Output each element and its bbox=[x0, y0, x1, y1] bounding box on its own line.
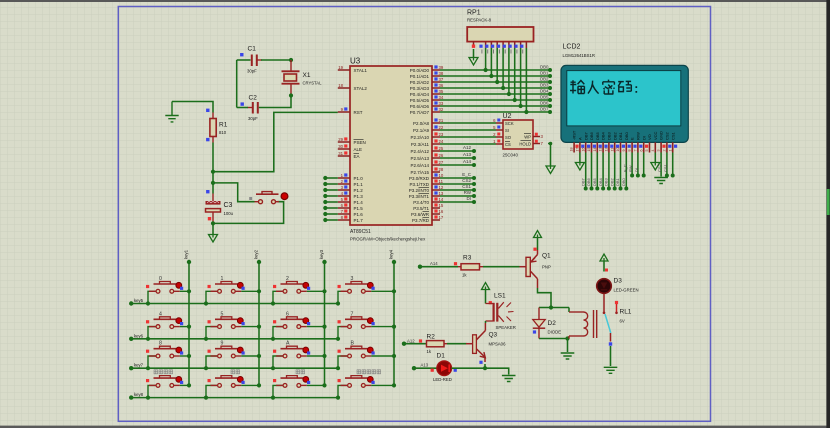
node DB0 end bbox=[548, 68, 552, 72]
svg-text:DB7: DB7 bbox=[583, 131, 588, 140]
svg-text:key3: key3 bbox=[319, 249, 324, 259]
wire A12 to R2 bbox=[404, 343, 427, 345]
node key3 column top bbox=[322, 260, 326, 264]
U2 pin 6 SCK bbox=[496, 122, 503, 124]
U3 pin 11 P3.1/TXD bbox=[432, 183, 440, 185]
svg-text:P2.0/A8: P2.0/A8 bbox=[413, 121, 430, 126]
svg-text:3: 3 bbox=[657, 150, 661, 152]
node RP1-DB0 junction bbox=[484, 68, 488, 72]
node E_C end bbox=[472, 176, 476, 180]
wire key6 row bus bbox=[131, 338, 338, 340]
svg-text:VO: VO bbox=[647, 134, 652, 140]
svg-text:LS1: LS1 bbox=[494, 293, 506, 300]
U3 pin 35 P0.4/AD4 bbox=[432, 93, 440, 95]
svg-text:A13: A13 bbox=[421, 363, 429, 368]
U3 pin 25 P2.4/A12 bbox=[432, 150, 440, 152]
U3 pin 9 RST bbox=[338, 111, 350, 113]
svg-text:DB4: DB4 bbox=[601, 131, 606, 140]
wire P2.2 to U2 bbox=[440, 136, 496, 138]
node C3 bottom junction bbox=[211, 221, 215, 225]
svg-text:DI: DI bbox=[634, 168, 639, 172]
U3 pin 34 P0.5/AD5 bbox=[432, 99, 440, 101]
node LCD DB5 end bbox=[595, 187, 599, 191]
node LCD DB7 end bbox=[584, 187, 588, 191]
svg-text:DB4: DB4 bbox=[598, 177, 603, 186]
svg-text:B: B bbox=[351, 341, 355, 347]
svg-text:P0.4/AD4: P0.4/AD4 bbox=[410, 92, 430, 97]
wire U2 HOLD to ground bbox=[548, 144, 551, 167]
svg-text:5: 5 bbox=[645, 150, 649, 152]
svg-text:CS2: CS2 bbox=[462, 178, 471, 183]
svg-text:13: 13 bbox=[599, 148, 603, 152]
wire Q3 emitter to A13 rail bbox=[484, 364, 486, 368]
svg-text:P2.6/A14: P2.6/A14 bbox=[410, 163, 429, 168]
node LCD DB1 end bbox=[619, 187, 623, 191]
svg-text:P1.0: P1.0 bbox=[354, 176, 364, 181]
U3 pin 16 P3.6/WR bbox=[432, 213, 440, 215]
svg-text:18: 18 bbox=[338, 83, 343, 88]
node P1.1 end bbox=[323, 182, 327, 186]
svg-text:RW: RW bbox=[464, 190, 472, 195]
node P1.4 end bbox=[323, 200, 327, 204]
U3 pin 31 EA bbox=[338, 155, 350, 157]
U2 pin 5 SI bbox=[496, 129, 503, 131]
svg-text:DB6: DB6 bbox=[586, 177, 591, 186]
node RP1-DB7 junction bbox=[524, 110, 528, 114]
node A13 wire start bbox=[412, 366, 416, 370]
svg-text:RL1: RL1 bbox=[620, 309, 632, 316]
svg-text:8: 8 bbox=[159, 341, 162, 347]
wire R2 to Q3 base bbox=[447, 343, 467, 345]
wire net A12 bbox=[440, 150, 474, 152]
wire key3 column bbox=[324, 262, 326, 385]
node LCD DB6 end bbox=[590, 187, 594, 191]
wire R3 to Q1 base bbox=[483, 266, 520, 268]
node LCD DB3 end bbox=[607, 187, 611, 191]
U3 pin 10 P3.0/RXD bbox=[432, 177, 440, 179]
svg-text:A: A bbox=[578, 137, 583, 140]
svg-text:4: 4 bbox=[651, 150, 655, 152]
RP1 pin 2 wire to DB0 bbox=[485, 42, 487, 48]
svg-text:E: E bbox=[630, 137, 635, 140]
svg-text:1: 1 bbox=[668, 150, 672, 152]
svg-text:C2: C2 bbox=[249, 95, 258, 102]
U3 pin 39 P0.0/AD0 bbox=[432, 69, 440, 71]
svg-text:19: 19 bbox=[338, 65, 343, 70]
node A14 wire start bbox=[418, 265, 422, 269]
node key4 column top bbox=[392, 260, 396, 264]
push-button key r2c1 "4" bbox=[146, 311, 191, 341]
node DB2 end bbox=[548, 80, 552, 84]
push-button key r4c1 "SET" bbox=[146, 376, 191, 400]
push-button key r2c4 "7" bbox=[336, 311, 396, 341]
push-button key r1c1 "0" bbox=[146, 276, 191, 306]
node DB4 end bbox=[548, 92, 552, 96]
svg-text:A13: A13 bbox=[463, 152, 472, 157]
node CS1 end bbox=[472, 188, 476, 192]
wire RST net (junction to RST pin) bbox=[213, 112, 338, 171]
node crystal top junction bbox=[289, 58, 293, 62]
node LCD CS1 end bbox=[671, 174, 675, 178]
node A13 end bbox=[472, 156, 476, 160]
wire junction to relay coil bbox=[551, 307, 569, 309]
ground (LCD VCC) bbox=[651, 163, 660, 171]
svg-text:10: 10 bbox=[616, 148, 620, 152]
svg-text:DB5: DB5 bbox=[595, 131, 600, 140]
svg-text:C3: C3 bbox=[224, 202, 233, 209]
wire A14 to R3 bbox=[420, 266, 458, 268]
svg-text:RW: RW bbox=[628, 165, 633, 172]
svg-text:P1.2: P1.2 bbox=[354, 188, 364, 193]
node RP1-DB5 junction bbox=[513, 98, 517, 102]
wire junction down to C3 bbox=[212, 172, 214, 194]
node RW end bbox=[472, 194, 476, 198]
svg-text:key8: key8 bbox=[134, 392, 144, 397]
wire P0.6 / DB6 net bbox=[440, 105, 550, 107]
wire P1.7 stub bbox=[325, 219, 338, 221]
node coil/diode bottom junction bbox=[565, 336, 569, 340]
wire C1 right to crystal node bbox=[261, 59, 291, 61]
svg-text:DI: DI bbox=[467, 196, 472, 201]
svg-text:Q1: Q1 bbox=[542, 253, 551, 260]
node R1 bottom junction bbox=[211, 170, 215, 174]
power terminal (D3) bbox=[600, 254, 608, 261]
wire to relay ground bbox=[567, 339, 569, 353]
ground (LCD GND) bbox=[654, 178, 668, 184]
U3 pin 5 P1.4 bbox=[338, 201, 350, 203]
U3 pin 24 P2.3/A11 bbox=[432, 143, 440, 145]
power terminal (LS1) bbox=[482, 283, 490, 290]
wire LCD pin17 to ground bbox=[579, 153, 581, 163]
node LCD DI end bbox=[642, 174, 646, 178]
resistor R1 bbox=[210, 113, 216, 143]
node Q3 emitter junction bbox=[483, 366, 487, 370]
node LCD DB0 end bbox=[624, 187, 628, 191]
svg-text:DB1: DB1 bbox=[615, 177, 620, 186]
svg-text:D3: D3 bbox=[614, 278, 623, 285]
svg-text:P0.7/AD7: P0.7/AD7 bbox=[410, 110, 430, 115]
svg-text:R1: R1 bbox=[219, 122, 228, 129]
svg-text:14: 14 bbox=[593, 148, 597, 152]
svg-text:P2.1/A9: P2.1/A9 bbox=[413, 128, 430, 133]
svg-text:4: 4 bbox=[159, 311, 162, 317]
ground (RP1 pin1) bbox=[469, 58, 478, 66]
wire LCD RW drop bbox=[637, 153, 639, 176]
svg-text:CS2: CS2 bbox=[657, 163, 662, 172]
svg-text:XTAL2: XTAL2 bbox=[354, 86, 368, 91]
push-button key r3c1 "8" bbox=[146, 341, 191, 371]
svg-text:P1.5: P1.5 bbox=[354, 206, 364, 211]
svg-text:A14: A14 bbox=[430, 261, 438, 266]
node RP1-DB4 junction bbox=[507, 92, 511, 96]
svg-text:DB1: DB1 bbox=[540, 70, 549, 75]
wire LCD VCC to ground arrow bbox=[654, 153, 656, 163]
svg-text:30pF: 30pF bbox=[247, 69, 257, 74]
svg-text:DB1: DB1 bbox=[618, 131, 623, 140]
wire P0.2 / DB2 net bbox=[440, 81, 550, 83]
svg-text:R/W: R/W bbox=[636, 132, 641, 140]
svg-text:D1: D1 bbox=[437, 353, 446, 360]
svg-text:DB7: DB7 bbox=[540, 106, 549, 111]
node key1 column top bbox=[187, 260, 191, 264]
LCD2 display shell bbox=[561, 65, 688, 142]
node DB7 end bbox=[548, 110, 552, 114]
node LCD DB2 end bbox=[613, 187, 617, 191]
node P1.0 end bbox=[323, 176, 327, 180]
U3 pin 8 P1.7 bbox=[338, 219, 350, 221]
svg-text:DB3: DB3 bbox=[604, 177, 609, 186]
svg-text:3: 3 bbox=[351, 276, 354, 282]
U3 pin 26 P2.5/A13 bbox=[432, 157, 440, 159]
RP1 pin 7 wire to DB5 bbox=[514, 42, 516, 48]
wire D2 bottom rail bbox=[539, 338, 569, 340]
wire key1 column bbox=[188, 262, 190, 385]
power terminal (Q1 emitter) bbox=[534, 231, 542, 238]
svg-text:SI: SI bbox=[505, 128, 509, 133]
node LCD CS2 end bbox=[665, 174, 669, 178]
relay RL1 coil bbox=[569, 310, 597, 339]
svg-text:key4: key4 bbox=[389, 249, 394, 259]
U3 pin 38 P0.1/AD1 bbox=[432, 75, 440, 77]
ground (relay coil) bbox=[561, 353, 575, 359]
svg-text:GND: GND bbox=[659, 131, 664, 140]
wire LCD E_C drop bbox=[631, 153, 633, 176]
svg-text:CS: CS bbox=[505, 142, 511, 147]
svg-text:PSEN: PSEN bbox=[354, 140, 366, 145]
U3 pin 21 P2.0/A8 bbox=[432, 122, 440, 124]
ground (LCD pin17) bbox=[575, 163, 584, 171]
svg-text:LED-RED: LED-RED bbox=[433, 377, 452, 382]
RP1 pin 3 wire to DB1 bbox=[490, 42, 492, 48]
svg-text:R2: R2 bbox=[427, 334, 436, 341]
node A12 wire start bbox=[402, 342, 406, 346]
svg-text:Q3: Q3 bbox=[489, 332, 498, 339]
svg-text:2: 2 bbox=[663, 150, 667, 152]
LCD2 screen text 输入密码: (hand-drawn strokes) bbox=[570, 80, 636, 94]
svg-text:P3.5/T1: P3.5/T1 bbox=[413, 206, 429, 211]
svg-text:P3.4/T0: P3.4/T0 bbox=[413, 200, 429, 205]
wire relay common to ground bbox=[610, 346, 612, 366]
wire P1.3 stub bbox=[325, 195, 338, 197]
wire P1.4 stub bbox=[325, 201, 338, 203]
svg-text:P3.6/WR: P3.6/WR bbox=[411, 212, 430, 217]
svg-text:HOLD: HOLD bbox=[519, 141, 531, 146]
wire LCD DB0 drop bbox=[625, 153, 627, 189]
U2 pin 3 WP bbox=[533, 136, 540, 138]
svg-text:U2: U2 bbox=[503, 113, 512, 120]
node P1.5 end bbox=[323, 206, 327, 210]
resistor R2 bbox=[427, 341, 448, 347]
wire LCD DB3 drop bbox=[608, 153, 610, 189]
svg-text:P3.1/TXD: P3.1/TXD bbox=[409, 182, 429, 187]
push-button key r4c4 "CANCEL" bbox=[336, 376, 396, 400]
svg-text:P2.7/A15: P2.7/A15 bbox=[410, 170, 429, 175]
wire P1.5 stub bbox=[325, 207, 338, 209]
ground (left of R1) bbox=[165, 102, 178, 122]
svg-text:key6: key6 bbox=[134, 333, 144, 338]
svg-text:CRYSTAL: CRYSTAL bbox=[303, 80, 323, 85]
svg-text:P1.7: P1.7 bbox=[354, 218, 364, 223]
svg-text:MPSA06: MPSA06 bbox=[489, 342, 507, 347]
svg-text:A12: A12 bbox=[407, 338, 415, 343]
svg-text:100u: 100u bbox=[224, 211, 234, 216]
crystal X1 bbox=[282, 60, 300, 96]
svg-text:DI: DI bbox=[641, 136, 646, 140]
wire P0.7 / DB7 net bbox=[440, 111, 550, 113]
svg-text:P1.1: P1.1 bbox=[354, 182, 364, 187]
U2 pin 2 SO bbox=[496, 136, 503, 138]
push-button key r4c3 "OK" bbox=[271, 376, 327, 400]
svg-text:17: 17 bbox=[576, 148, 580, 152]
wire LS1 bottom to Q3 collector bbox=[485, 321, 487, 323]
node LCD E_C end bbox=[630, 174, 634, 178]
svg-text:CS1: CS1 bbox=[670, 131, 675, 140]
svg-text:P2.3/A11: P2.3/A11 bbox=[411, 142, 430, 147]
svg-text:P2.4/A12: P2.4/A12 bbox=[410, 149, 429, 154]
RP1 pin 1 (common) bbox=[473, 42, 475, 47]
wire C3 to ground bbox=[212, 223, 214, 234]
wire P1.1 stub bbox=[325, 183, 338, 185]
node DB5 end bbox=[548, 98, 552, 102]
node LCD DB4 end bbox=[601, 187, 605, 191]
svg-text:SPEAKER: SPEAKER bbox=[496, 325, 516, 330]
capacitor C1 bbox=[252, 55, 262, 67]
svg-text:31: 31 bbox=[338, 151, 343, 156]
svg-text:12: 12 bbox=[605, 148, 609, 152]
svg-text:P1.6: P1.6 bbox=[354, 212, 364, 217]
wire P0.5 / DB5 net bbox=[440, 99, 550, 101]
wire LCD DB2 drop bbox=[614, 153, 616, 189]
svg-text:DB0: DB0 bbox=[624, 131, 629, 140]
svg-text:11: 11 bbox=[610, 148, 614, 152]
U3 pin 23 P2.2/A10 bbox=[432, 136, 440, 138]
chip U3 AT89C51 body bbox=[350, 66, 432, 225]
svg-text:8: 8 bbox=[628, 150, 632, 152]
ground (relay common) bbox=[604, 367, 618, 373]
sheet border frame bbox=[118, 7, 710, 422]
U3 pin 33 P0.6/AD6 bbox=[432, 105, 440, 107]
push-button key r1c2 "1" bbox=[204, 276, 261, 306]
node key5 row start bbox=[129, 301, 133, 305]
svg-text:A14: A14 bbox=[463, 159, 472, 164]
svg-text:6: 6 bbox=[286, 311, 289, 317]
node key7 row start bbox=[129, 366, 133, 370]
node A14 end bbox=[472, 163, 476, 167]
svg-text:18: 18 bbox=[570, 148, 574, 152]
wire key4 column bbox=[393, 262, 395, 385]
svg-text:DB3: DB3 bbox=[607, 131, 612, 140]
svg-text:9: 9 bbox=[622, 150, 626, 152]
U2 pin 7 HOLD bbox=[533, 143, 540, 145]
svg-text:P0.6/AD6: P0.6/AD6 bbox=[410, 104, 430, 109]
svg-text:810: 810 bbox=[219, 130, 227, 135]
node key8 row start bbox=[129, 395, 133, 399]
svg-text:DB6: DB6 bbox=[540, 100, 549, 105]
svg-text:6V: 6V bbox=[620, 319, 625, 324]
U3 pin 4 P1.3 bbox=[338, 195, 350, 197]
node DB3 end bbox=[548, 86, 552, 90]
node DB6 end bbox=[548, 104, 552, 108]
svg-text:DB4: DB4 bbox=[540, 88, 549, 93]
capacitor C3 (electrolytic) bbox=[206, 194, 221, 224]
svg-text:DB3: DB3 bbox=[540, 82, 549, 87]
wire P1.2 stub bbox=[325, 189, 338, 191]
window right scrollbar bbox=[826, 0, 830, 428]
wire reset button right leg bbox=[213, 202, 284, 224]
wire ground to R1 top bbox=[172, 102, 213, 113]
wire LCD GND to ground bars bbox=[660, 153, 662, 177]
wire net CS2 bbox=[440, 183, 474, 185]
wire key5 row bus bbox=[131, 303, 338, 305]
svg-text:P1.3: P1.3 bbox=[354, 194, 364, 199]
svg-text:15: 15 bbox=[587, 148, 591, 152]
push-button key r2c3 "6" bbox=[271, 311, 327, 341]
U3 pin 15 P3.5/T1 bbox=[432, 207, 440, 209]
node RP1-DB2 junction bbox=[495, 80, 499, 84]
svg-text:A12: A12 bbox=[463, 145, 472, 150]
window bottom bar bbox=[0, 426, 830, 428]
svg-text:P3.3/INT1: P3.3/INT1 bbox=[409, 194, 430, 199]
svg-text:0: 0 bbox=[159, 276, 162, 282]
wire P2.1 to U2 bbox=[440, 129, 496, 131]
svg-text:WP: WP bbox=[524, 134, 531, 139]
svg-text:C1: C1 bbox=[248, 46, 257, 53]
wire R1 bottom bbox=[212, 143, 214, 172]
diode D2 bbox=[533, 308, 545, 339]
svg-text:PNP: PNP bbox=[542, 265, 551, 270]
wire C1 left bbox=[237, 59, 251, 61]
svg-text:DB5: DB5 bbox=[540, 94, 549, 99]
svg-text:P0.5/AD5: P0.5/AD5 bbox=[410, 98, 430, 103]
wire key7 row bus bbox=[131, 367, 338, 369]
wire D1 to Q3 emitter junction bbox=[452, 367, 486, 369]
keypad row4 chinese labels bbox=[154, 370, 381, 374]
svg-text:DIODE: DIODE bbox=[548, 330, 562, 335]
node Q1 collector junction bbox=[549, 305, 553, 309]
wire LCD DB7 drop bbox=[585, 153, 587, 189]
svg-text:CS1: CS1 bbox=[663, 163, 668, 172]
wire net A13 bbox=[440, 157, 474, 159]
svg-text:P3.0/RXD: P3.0/RXD bbox=[409, 176, 430, 181]
U3 pin 14 P3.4/T0 bbox=[432, 201, 440, 203]
node RP1-DB6 junction bbox=[519, 104, 523, 108]
svg-text:DB0: DB0 bbox=[540, 64, 549, 69]
node crystal bottom junction bbox=[289, 93, 293, 97]
wire C2 left bbox=[237, 107, 248, 109]
svg-text:LCD2: LCD2 bbox=[563, 44, 581, 51]
svg-text:SCK: SCK bbox=[505, 121, 514, 126]
svg-text:15: 15 bbox=[439, 203, 444, 208]
push-button key r1c3 "2" bbox=[271, 276, 327, 306]
window top bar bbox=[0, 0, 830, 2]
node C1-C2 left vertical wire bbox=[236, 60, 238, 108]
U3 pin 2 P1.1 bbox=[338, 183, 350, 185]
ground (U2 HOLD) bbox=[546, 166, 555, 174]
svg-text:DB2: DB2 bbox=[609, 177, 614, 186]
U3 pin 22 P2.1/A9 bbox=[432, 129, 440, 131]
node reset-button tap junction bbox=[211, 181, 215, 185]
svg-text:E_C: E_C bbox=[622, 164, 627, 172]
svg-text:EA: EA bbox=[354, 154, 360, 159]
U3 pin 1 P1.0 bbox=[338, 177, 350, 179]
wire LCD DB5 drop bbox=[596, 153, 598, 189]
svg-text:RESPACK-8: RESPACK-8 bbox=[467, 18, 492, 23]
RP1 pin 8 wire to DB6 bbox=[520, 42, 522, 48]
svg-text:1: 1 bbox=[221, 276, 224, 282]
node DB1 end bbox=[548, 74, 552, 78]
svg-text:16: 16 bbox=[581, 148, 585, 152]
wire P2.3 to U2 bbox=[440, 143, 496, 145]
